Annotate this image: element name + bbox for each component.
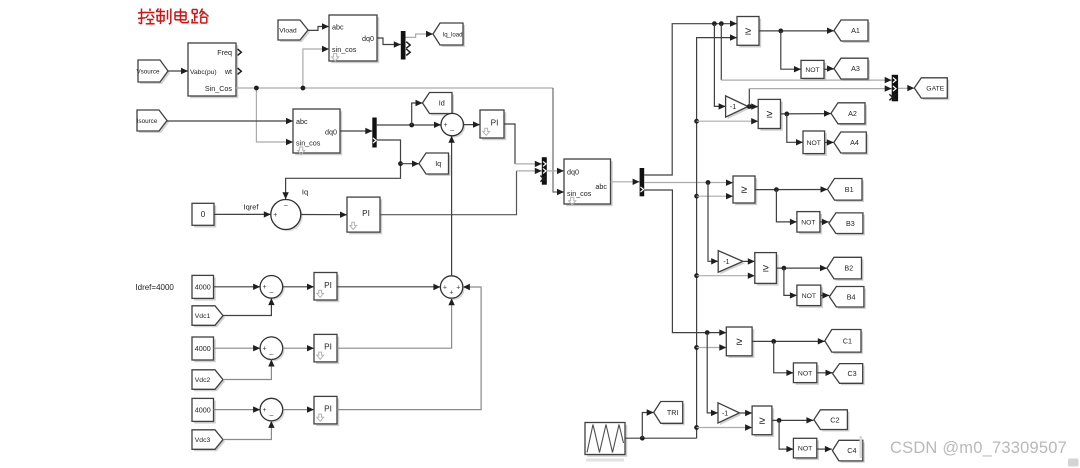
svg-text:–: –: [269, 351, 273, 358]
svg-text:Vdc1: Vdc1: [195, 313, 211, 320]
svg-text:A3: A3: [851, 64, 860, 73]
svg-text:Iq: Iq: [302, 188, 308, 197]
svg-text:–: –: [450, 127, 454, 134]
svg-text:+: +: [273, 212, 277, 219]
svg-text:PI: PI: [324, 281, 332, 290]
svg-text:Vsource: Vsource: [136, 69, 160, 76]
svg-text:PI: PI: [362, 209, 370, 218]
svg-text:–: –: [269, 290, 273, 297]
svg-text:≥: ≥: [759, 415, 765, 427]
svg-text:PI: PI: [324, 405, 332, 414]
svg-text:C2: C2: [830, 415, 839, 424]
svg-text:NOT: NOT: [798, 446, 812, 453]
svg-text:NOT: NOT: [802, 293, 816, 300]
svg-text:Sin_Cos: Sin_Cos: [205, 84, 233, 93]
svg-text:abc: abc: [332, 23, 344, 32]
svg-text:+: +: [263, 407, 267, 414]
svg-text:+: +: [450, 290, 454, 297]
svg-text:+: +: [443, 284, 447, 291]
svg-text:wt: wt: [224, 67, 232, 76]
svg-text:Iq_load: Iq_load: [443, 32, 463, 39]
svg-text:Idref=4000: Idref=4000: [135, 283, 174, 292]
svg-text:+: +: [443, 122, 447, 129]
svg-text:CSDN @m0_73309507: CSDN @m0_73309507: [890, 439, 1067, 457]
svg-text:4000: 4000: [195, 405, 211, 414]
svg-text:≥: ≥: [766, 109, 772, 121]
svg-text:≥: ≥: [763, 263, 769, 275]
svg-text:PI: PI: [491, 119, 499, 128]
svg-text:dq0: dq0: [567, 168, 579, 177]
svg-text:dq0: dq0: [325, 128, 337, 137]
svg-text:B4: B4: [847, 292, 856, 301]
svg-text:+: +: [456, 284, 460, 291]
svg-text:–: –: [284, 202, 288, 209]
svg-text:sin_cos: sin_cos: [332, 45, 357, 54]
svg-text:4000: 4000: [195, 344, 211, 353]
svg-text:0: 0: [201, 210, 206, 219]
svg-text:Vabc(pu): Vabc(pu): [190, 69, 217, 76]
svg-text:A4: A4: [850, 138, 859, 147]
svg-text:TRI: TRI: [667, 408, 679, 417]
svg-text:–: –: [269, 412, 273, 419]
svg-text:Vdc3: Vdc3: [195, 437, 211, 444]
svg-text:-1: -1: [722, 411, 728, 418]
svg-text:B2: B2: [844, 264, 853, 273]
svg-text:Freq: Freq: [217, 48, 232, 57]
svg-text:C3: C3: [847, 369, 856, 378]
svg-text:≥: ≥: [736, 336, 742, 348]
svg-text:Iqref: Iqref: [243, 203, 259, 212]
svg-text:NOT: NOT: [798, 370, 812, 377]
svg-text:-1: -1: [723, 259, 729, 266]
svg-text:Vdc2: Vdc2: [195, 377, 211, 384]
svg-text:-1: -1: [730, 104, 736, 111]
svg-text:abc: abc: [595, 182, 607, 191]
svg-text:abc: abc: [296, 117, 308, 126]
svg-text:≥: ≥: [741, 184, 747, 196]
svg-text:+: +: [263, 346, 267, 353]
svg-text:sin_cos: sin_cos: [567, 189, 592, 198]
svg-text:B1: B1: [845, 185, 854, 194]
svg-text:Isource: Isource: [137, 118, 158, 125]
svg-text:B3: B3: [846, 219, 855, 228]
svg-text:C4: C4: [847, 446, 856, 455]
svg-text:Vload: Vload: [279, 28, 297, 35]
svg-text:A1: A1: [851, 26, 860, 35]
svg-text:NOT: NOT: [801, 219, 815, 226]
svg-text:Id: Id: [439, 99, 445, 108]
svg-text:NOT: NOT: [807, 140, 821, 147]
svg-text:dq0: dq0: [362, 34, 374, 43]
svg-text:C1: C1: [843, 336, 852, 345]
svg-text:Iq: Iq: [435, 159, 441, 168]
svg-text:A2: A2: [848, 109, 857, 118]
svg-text:sin_cos: sin_cos: [296, 139, 321, 148]
svg-text:PI: PI: [324, 343, 332, 352]
svg-text:4000: 4000: [195, 282, 211, 291]
svg-text:≥: ≥: [745, 26, 751, 38]
svg-text:GATE: GATE: [926, 86, 944, 93]
svg-text:+: +: [263, 284, 267, 291]
svg-text:NOT: NOT: [805, 67, 819, 74]
